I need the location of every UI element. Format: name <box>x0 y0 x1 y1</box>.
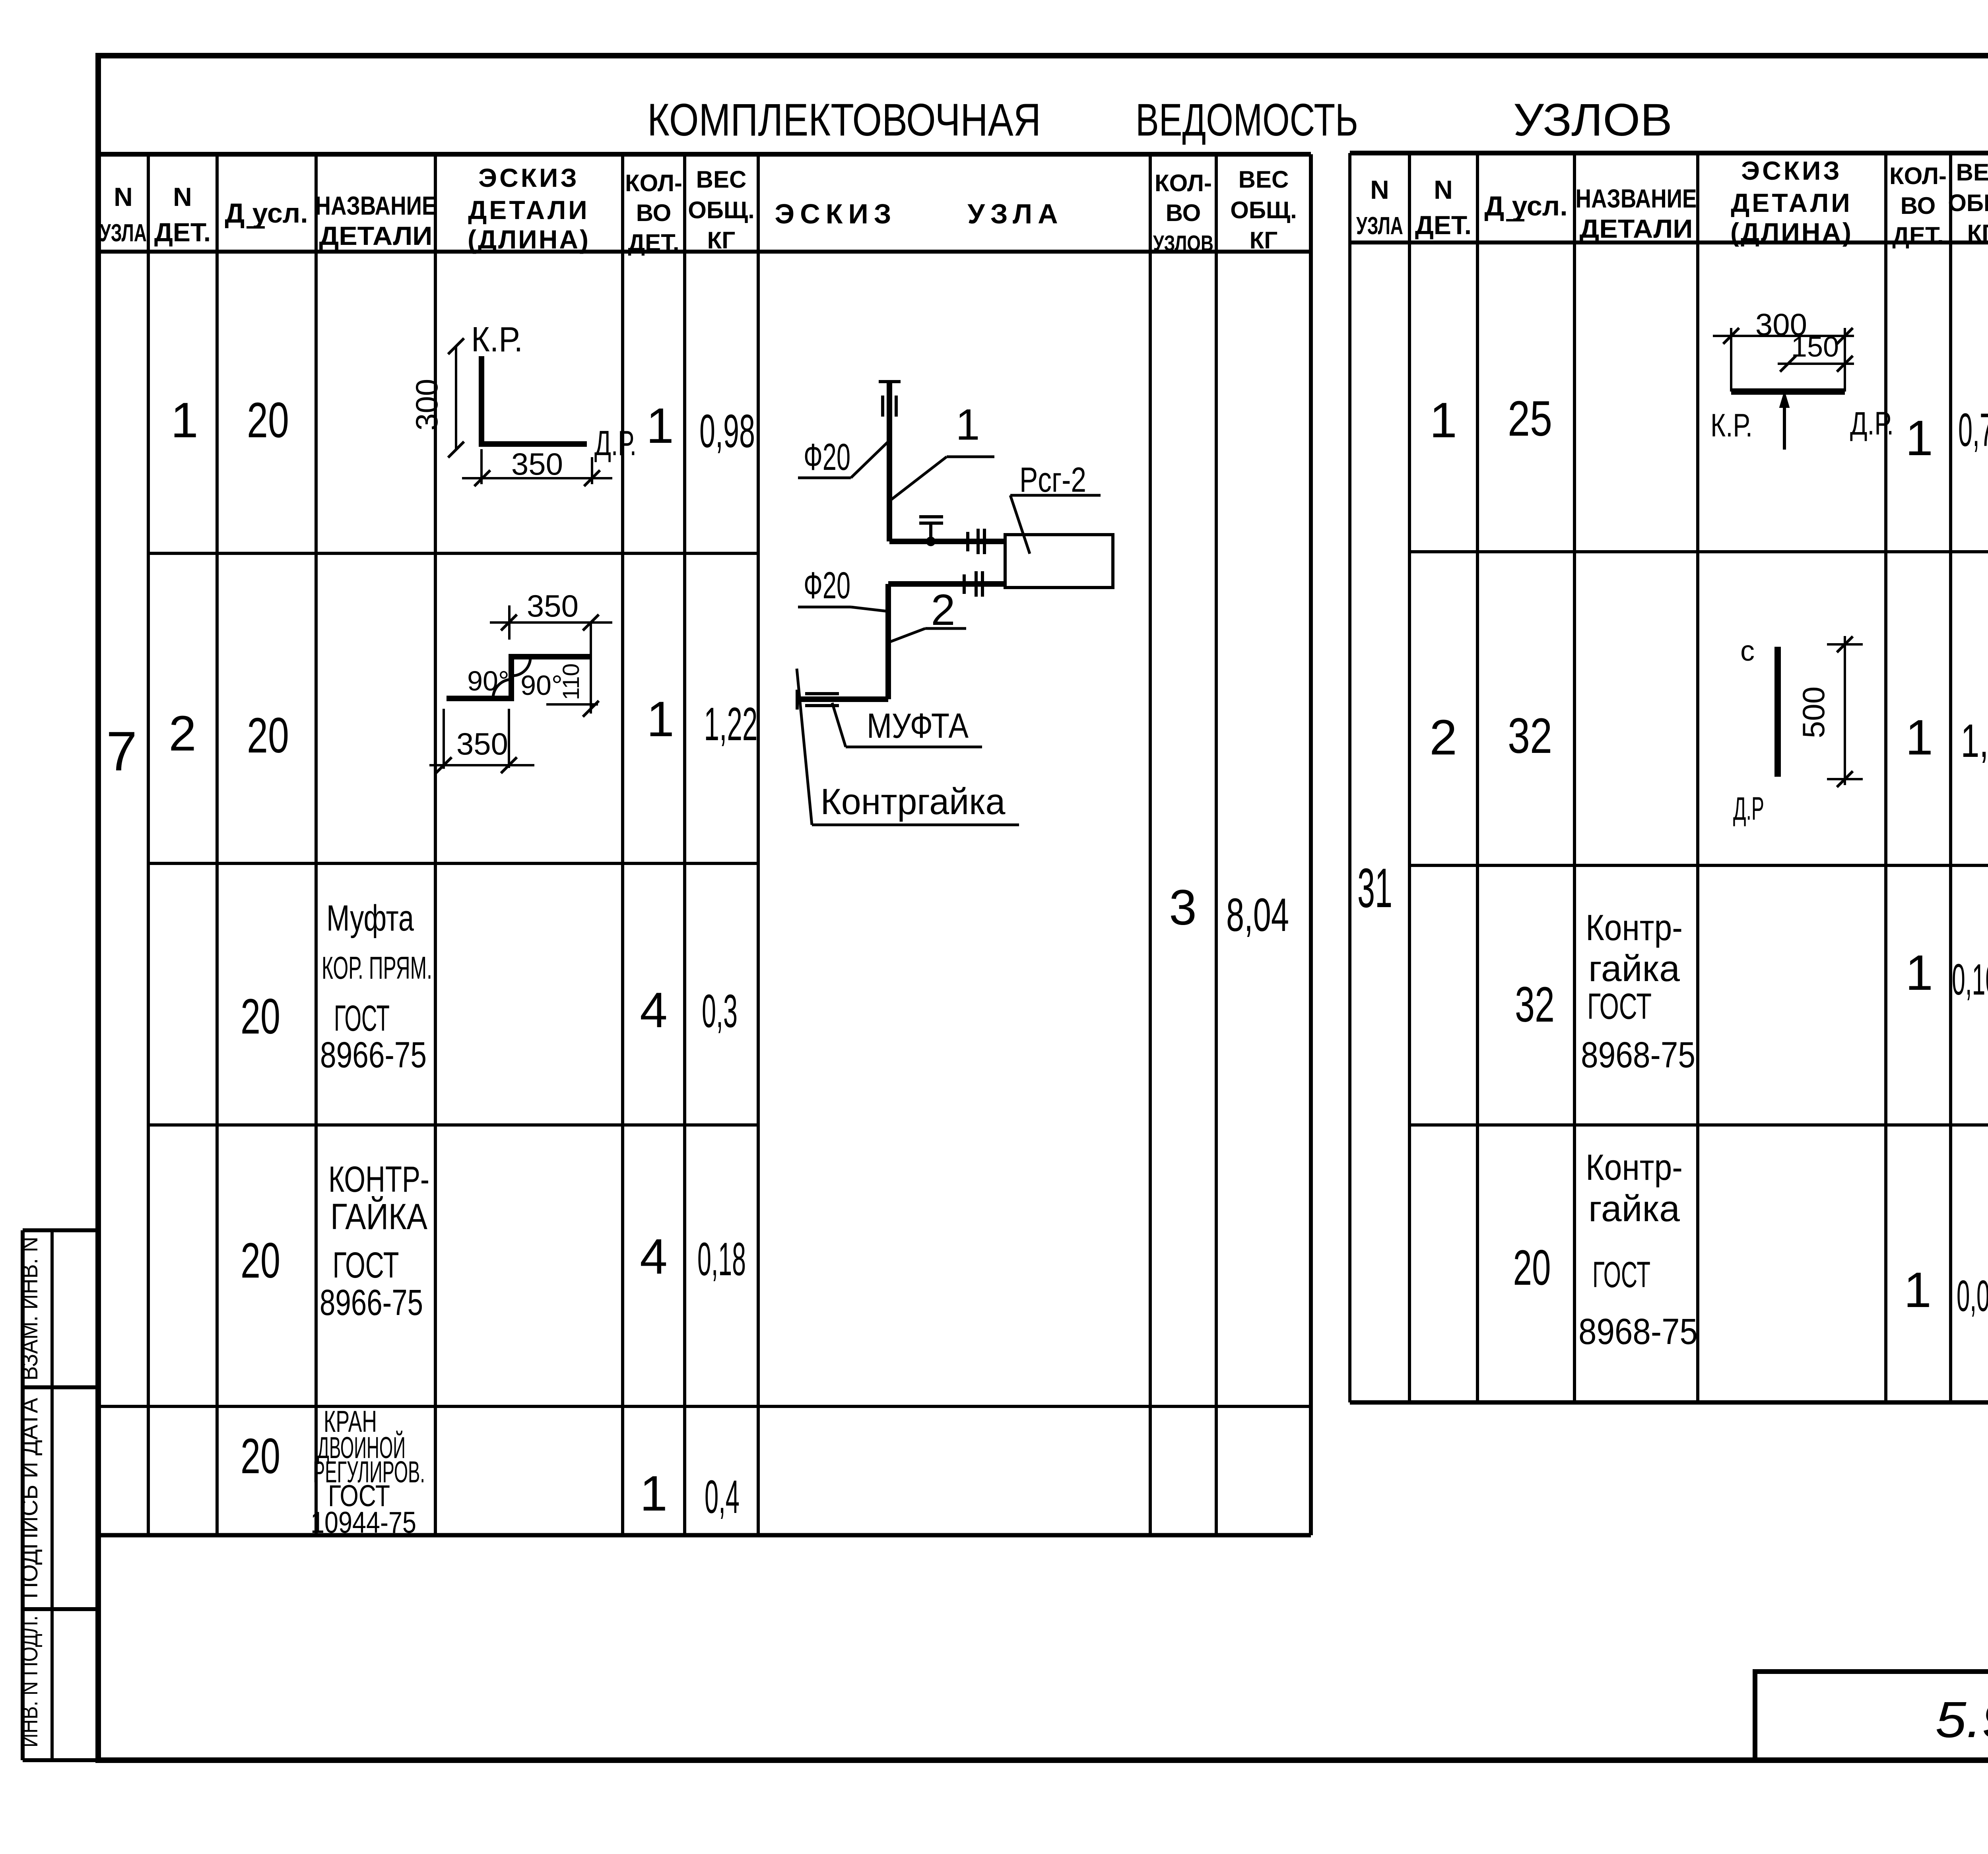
svg-text:КГ: КГ <box>707 227 736 254</box>
svg-text:ОБЩ.: ОБЩ. <box>1230 197 1297 223</box>
svg-text:90°: 90° <box>520 670 563 701</box>
svg-text:ВО: ВО <box>1901 192 1936 219</box>
svg-text:ДЕТ.: ДЕТ. <box>628 229 679 256</box>
svg-text:20: 20 <box>1513 1240 1551 1295</box>
svg-text:ИНВ. N ПОДЛ.: ИНВ. N ПОДЛ. <box>16 1615 43 1747</box>
svg-text:4: 4 <box>640 1229 668 1284</box>
svg-text:КОЛ-: КОЛ- <box>1155 170 1212 196</box>
svg-text:7: 7 <box>106 720 137 782</box>
svg-text:10944-75: 10944-75 <box>311 1506 416 1540</box>
svg-text:НАЗВАНИЕ: НАЗВАНИЕ <box>1576 184 1697 213</box>
svg-text:ДЕТ.: ДЕТ. <box>154 217 211 247</box>
svg-text:8968-75: 8968-75 <box>1578 1311 1698 1352</box>
svg-text:1: 1 <box>1905 411 1933 466</box>
svg-text:КОМПЛЕКТОВОЧНАЯ: КОМПЛЕКТОВОЧНАЯ <box>647 95 1041 145</box>
svg-text:ДЕТАЛИ: ДЕТАЛИ <box>1580 214 1693 243</box>
svg-text:8968-75: 8968-75 <box>1581 1035 1695 1075</box>
svg-text:гайка: гайка <box>1588 948 1680 989</box>
svg-text:ДЕТАЛИ: ДЕТАЛИ <box>319 221 433 250</box>
svg-text:1: 1 <box>646 692 674 747</box>
svg-text:Д усл.: Д усл. <box>225 198 308 229</box>
svg-text:ВЕС: ВЕС <box>1239 166 1289 193</box>
svg-text:0,3: 0,3 <box>702 985 738 1038</box>
svg-text:УЗЛОВ: УЗЛОВ <box>1153 231 1213 256</box>
svg-text:ЭСКИЗ: ЭСКИЗ <box>1741 156 1842 185</box>
svg-text:1,4: 1,4 <box>1961 715 1988 767</box>
svg-text:8966-75: 8966-75 <box>320 1035 427 1075</box>
svg-text:КОНТР-: КОНТР- <box>328 1159 429 1200</box>
svg-text:Контр-: Контр- <box>1586 1147 1683 1188</box>
svg-text:гайка: гайка <box>1588 1189 1680 1229</box>
svg-text:ДЕТ.: ДЕТ. <box>1892 222 1943 249</box>
svg-text:ОБЩ.: ОБЩ. <box>1948 190 1988 216</box>
svg-text:УЗЛА: УЗЛА <box>100 219 147 247</box>
svg-text:1: 1 <box>1429 393 1457 448</box>
svg-text:КОЛ-: КОЛ- <box>625 170 682 196</box>
svg-text:КГ: КГ <box>1250 227 1278 254</box>
svg-text:Ф20: Ф20 <box>804 564 850 607</box>
svg-text:1,22: 1,22 <box>704 698 758 751</box>
svg-text:К.Р.: К.Р. <box>1710 407 1753 444</box>
svg-text:1: 1 <box>955 400 980 449</box>
svg-text:ПОДПИСЬ И ДАТА: ПОДПИСЬ И ДАТА <box>16 1398 43 1599</box>
svg-text:КОЛ-: КОЛ- <box>1889 163 1947 189</box>
svg-text:1: 1 <box>1905 945 1933 1001</box>
svg-text:1: 1 <box>171 393 198 448</box>
svg-text:ГОСТ: ГОСТ <box>333 1245 399 1286</box>
svg-text:25: 25 <box>1508 391 1552 446</box>
svg-text:90°: 90° <box>467 665 509 696</box>
svg-text:Ф20: Ф20 <box>804 436 850 478</box>
svg-text:УЗЛА: УЗЛА <box>1356 212 1403 240</box>
svg-text:20: 20 <box>247 393 289 448</box>
svg-text:150: 150 <box>1791 331 1839 363</box>
svg-text:32: 32 <box>1515 977 1555 1032</box>
svg-text:КОР. ПРЯМ.: КОР. ПРЯМ. <box>322 950 432 985</box>
svg-text:N: N <box>114 182 133 211</box>
svg-text:Д.Р.: Д.Р. <box>1850 405 1894 442</box>
svg-text:ОБЩ.: ОБЩ. <box>688 197 755 223</box>
svg-text:0,044: 0,044 <box>1957 1272 1988 1321</box>
svg-text:ГОСТ: ГОСТ <box>1587 986 1652 1027</box>
svg-text:УЗЛОВ: УЗЛОВ <box>1513 95 1672 145</box>
svg-text:31: 31 <box>1357 857 1392 919</box>
svg-text:ВЗАМ. ИНВ. N: ВЗАМ. ИНВ. N <box>16 1237 43 1381</box>
svg-text:1: 1 <box>640 1466 668 1521</box>
svg-text:350: 350 <box>456 726 508 761</box>
svg-text:1: 1 <box>1904 1263 1932 1318</box>
svg-text:500: 500 <box>1796 687 1831 738</box>
svg-text:ВО: ВО <box>636 200 672 226</box>
svg-text:НАЗВАНИЕ: НАЗВАНИЕ <box>315 191 437 220</box>
svg-text:Рсг-2: Рсг-2 <box>1019 460 1086 499</box>
svg-text:8966-75: 8966-75 <box>320 1282 423 1323</box>
svg-text:УЗЛА: УЗЛА <box>967 198 1063 229</box>
svg-text:8,04: 8,04 <box>1226 889 1289 941</box>
svg-text:Д усл.: Д усл. <box>1484 190 1567 221</box>
svg-text:КГ: КГ <box>1967 220 1988 246</box>
svg-text:Д.Р: Д.Р <box>1733 791 1764 827</box>
svg-text:0,18: 0,18 <box>697 1233 746 1286</box>
svg-text:МУФТА: МУФТА <box>867 706 969 745</box>
svg-text:ДЕТАЛИ: ДЕТАЛИ <box>1731 188 1852 217</box>
svg-text:350: 350 <box>511 446 563 481</box>
svg-text:0,77: 0,77 <box>1958 404 1988 456</box>
svg-text:20: 20 <box>247 708 289 763</box>
svg-text:ВЕС: ВЕС <box>696 166 747 193</box>
svg-text:N: N <box>173 182 192 211</box>
svg-text:N: N <box>1434 175 1453 204</box>
svg-text:ВЕДОМОСТЬ: ВЕДОМОСТЬ <box>1136 95 1358 145</box>
svg-text:5.900-4-В.0-1: 5.900-4-В.0-1 <box>1936 1691 1988 1748</box>
svg-text:350: 350 <box>527 588 579 623</box>
svg-text:Контр-: Контр- <box>1586 908 1683 948</box>
svg-text:Муфта: Муфта <box>326 898 414 939</box>
svg-text:(ДЛИНА): (ДЛИНА) <box>468 225 590 254</box>
svg-text:0,98: 0,98 <box>699 405 755 458</box>
svg-text:20: 20 <box>241 1233 280 1288</box>
svg-text:4: 4 <box>640 983 668 1038</box>
svg-text:Д.Р.: Д.Р. <box>594 423 637 463</box>
svg-text:110: 110 <box>558 663 584 700</box>
svg-text:К.Р.: К.Р. <box>471 320 523 359</box>
svg-text:1: 1 <box>1905 710 1933 765</box>
svg-text:2: 2 <box>169 706 196 761</box>
svg-text:ДЕТАЛИ: ДЕТАЛИ <box>468 195 589 225</box>
svg-text:ГОСТ: ГОСТ <box>1592 1255 1650 1295</box>
svg-text:(ДЛИНА): (ДЛИНА) <box>1730 217 1853 247</box>
svg-text:32: 32 <box>1508 708 1552 764</box>
svg-text:20: 20 <box>241 989 280 1044</box>
svg-text:ГОСТ: ГОСТ <box>334 998 390 1039</box>
svg-text:ГАЙКА: ГАЙКА <box>330 1196 428 1237</box>
svg-text:2: 2 <box>1429 710 1457 765</box>
svg-text:ВО: ВО <box>1166 200 1201 226</box>
svg-text:300: 300 <box>409 379 444 431</box>
svg-text:3: 3 <box>1169 880 1197 935</box>
svg-text:0,105: 0,105 <box>1952 955 1988 1004</box>
svg-text:20: 20 <box>241 1429 280 1484</box>
svg-text:0,4: 0,4 <box>705 1471 740 1523</box>
svg-text:1: 1 <box>646 398 674 454</box>
svg-text:ВЕС: ВЕС <box>1956 159 1988 186</box>
svg-text:ЭСКИЗ: ЭСКИЗ <box>478 163 579 192</box>
svg-text:с: с <box>1740 635 1755 667</box>
svg-text:ЭСКИЗ: ЭСКИЗ <box>775 198 897 229</box>
svg-text:ДЕТ.: ДЕТ. <box>1415 210 1472 240</box>
svg-text:Контргайка: Контргайка <box>821 782 1006 822</box>
svg-text:N: N <box>1370 175 1389 204</box>
